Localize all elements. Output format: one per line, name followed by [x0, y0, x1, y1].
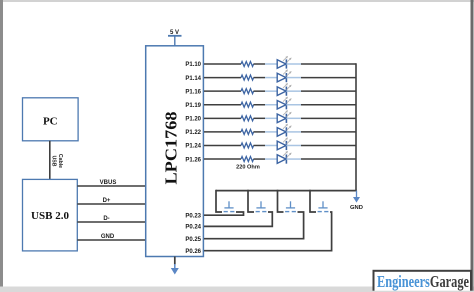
pin P0.24	[185, 225, 201, 231]
wire P1.10 to resistor R1	[204, 63, 241, 65]
wire resistor R5 to LED D5	[254, 117, 278, 119]
wire LED D5 to GND bus	[286, 117, 356, 119]
wire resistor R7 to LED D7	[254, 144, 278, 146]
wire LED D3 to GND bus	[286, 90, 356, 92]
resistor R7 220 Ohm	[241, 143, 254, 148]
svg-text:D-: D-	[103, 216, 109, 222]
resistor R4 220 Ohm	[241, 102, 254, 107]
LED D1	[277, 57, 291, 69]
svg-text:VBUS: VBUS	[100, 180, 117, 186]
wire LED D8 to GND bus	[286, 158, 356, 160]
wire resistor R8 to LED D8	[254, 158, 278, 160]
label D-	[103, 216, 109, 222]
svg-text:EngineersGarage: EngineersGarage	[377, 272, 469, 291]
svg-text:P1.20: P1.20	[185, 117, 201, 123]
svg-text:P0.25: P0.25	[185, 237, 201, 243]
resistor R6 220 Ohm	[241, 129, 254, 134]
pin P1.10	[185, 62, 201, 68]
LED D7	[277, 138, 291, 150]
resistor R8 220 Ohm	[241, 157, 254, 162]
block PC	[23, 98, 79, 141]
resistor R5 220 Ohm	[241, 116, 254, 121]
pin P0.25	[185, 237, 201, 243]
wire GND bus drop to switch S2	[248, 190, 254, 212]
pin P1.22	[185, 130, 201, 136]
microcontroller U1 LPC1768	[146, 46, 204, 257]
wire resistor R6 to LED D6	[254, 131, 278, 133]
svg-text:PC: PC	[43, 116, 58, 128]
wire LED D7 to GND bus	[286, 144, 356, 146]
svg-text:P0.23: P0.23	[185, 213, 201, 219]
pin P1.19	[185, 103, 201, 109]
wire USB cable (PC to USB 2.0)	[49, 141, 51, 180]
svg-text:220 Ohm: 220 Ohm	[236, 164, 260, 170]
wire P1.26 to resistor R8	[204, 158, 241, 160]
wire vertical GND bus (right)	[355, 63, 357, 190]
wire GND bus drop to switch S4	[310, 190, 316, 212]
svg-text:GND: GND	[350, 205, 363, 211]
svg-text:USB 2.0: USB 2.0	[31, 210, 69, 222]
pin P1.24	[185, 144, 201, 150]
label GND	[101, 234, 115, 240]
LED D8	[277, 152, 291, 164]
pin P0.26	[185, 249, 201, 255]
label D+	[103, 198, 111, 204]
wire P1.22 to resistor R6	[204, 131, 241, 133]
wire LED D6 to GND bus	[286, 131, 356, 133]
resistor R3 220 Ohm	[241, 89, 254, 94]
wire LED D1 to GND bus	[286, 63, 356, 65]
wire P1.14 to resistor R2	[204, 77, 241, 79]
pin P1.26	[185, 157, 201, 163]
resistor R1 220 Ohm	[241, 62, 254, 67]
LED D4	[277, 97, 291, 109]
wire resistor R1 to LED D1	[254, 63, 278, 65]
label 220 Ohm (resistor value)	[236, 164, 260, 170]
label VBUS	[100, 180, 117, 186]
wire GND bus drop to switch S3	[278, 190, 284, 212]
wire GND bus drop to switch S1	[216, 190, 222, 212]
wire switch S1 to pin P0.23	[204, 212, 244, 215]
LED D3	[277, 84, 291, 96]
wire LED D2 to GND bus	[286, 77, 356, 79]
resistor R2 220 Ohm	[241, 75, 254, 80]
pin P1.20	[185, 117, 201, 123]
wire switch S2 to pin P0.24	[204, 212, 272, 226]
svg-text:Cable: Cable	[57, 154, 63, 168]
svg-text:P1.19: P1.19	[185, 103, 201, 109]
wire VBUS (USB 2.0 to LPC1768)	[77, 185, 146, 187]
LED D2	[277, 70, 291, 82]
wire LED D4 to GND bus	[286, 104, 356, 106]
svg-text:P1.16: P1.16	[185, 89, 201, 95]
wire switch S3 to pin P0.25	[204, 212, 304, 239]
svg-text:P0.26: P0.26	[185, 249, 201, 255]
switch S3 (push button)	[285, 201, 296, 211]
svg-text:P0.24: P0.24	[185, 225, 201, 231]
pin P1.14	[185, 76, 201, 82]
svg-text:USB: USB	[51, 156, 57, 167]
wire switch S4 to pin P0.26	[204, 212, 332, 251]
svg-text:P1.26: P1.26	[185, 157, 201, 163]
svg-text:D+: D+	[103, 198, 111, 204]
wire GND (USB 2.0 to LPC1768)	[77, 239, 146, 241]
wire resistor R2 to LED D2	[254, 77, 278, 79]
wire resistor R4 to LED D4	[254, 104, 278, 106]
svg-text:P1.14: P1.14	[185, 76, 201, 82]
label USB Cable	[51, 154, 63, 168]
switch S1 (push button)	[224, 201, 235, 211]
wire D+ (USB 2.0 to LPC1768)	[77, 203, 146, 205]
wire P1.20 to resistor R5	[204, 117, 241, 119]
svg-text:P1.24: P1.24	[185, 144, 201, 150]
switch S2 (push button)	[256, 201, 267, 211]
LED D6	[277, 124, 291, 136]
svg-text:P1.10: P1.10	[185, 62, 201, 68]
wire P1.16 to resistor R3	[204, 90, 241, 92]
block USB 2.0	[23, 179, 78, 251]
svg-text:GND: GND	[101, 234, 115, 240]
switch S4 (push button)	[318, 201, 329, 211]
wire resistor R3 to LED D3	[254, 90, 278, 92]
logo EngineersGarage	[374, 271, 472, 292]
power 5V	[168, 30, 182, 46]
wire D- (USB 2.0 to LPC1768)	[77, 221, 146, 223]
ground (below LPC1768)	[171, 257, 179, 275]
svg-text:P1.22: P1.22	[185, 130, 201, 136]
wire P1.19 to resistor R4	[204, 104, 241, 106]
ground GND (right)	[350, 191, 363, 211]
wire P1.24 to resistor R7	[204, 144, 241, 146]
svg-text:LPC1768: LPC1768	[162, 112, 181, 185]
pin P1.16	[185, 89, 201, 95]
pin P0.23	[185, 213, 201, 219]
LED D5	[277, 111, 291, 123]
wire horizontal GND bus (switch rail)	[216, 190, 357, 192]
